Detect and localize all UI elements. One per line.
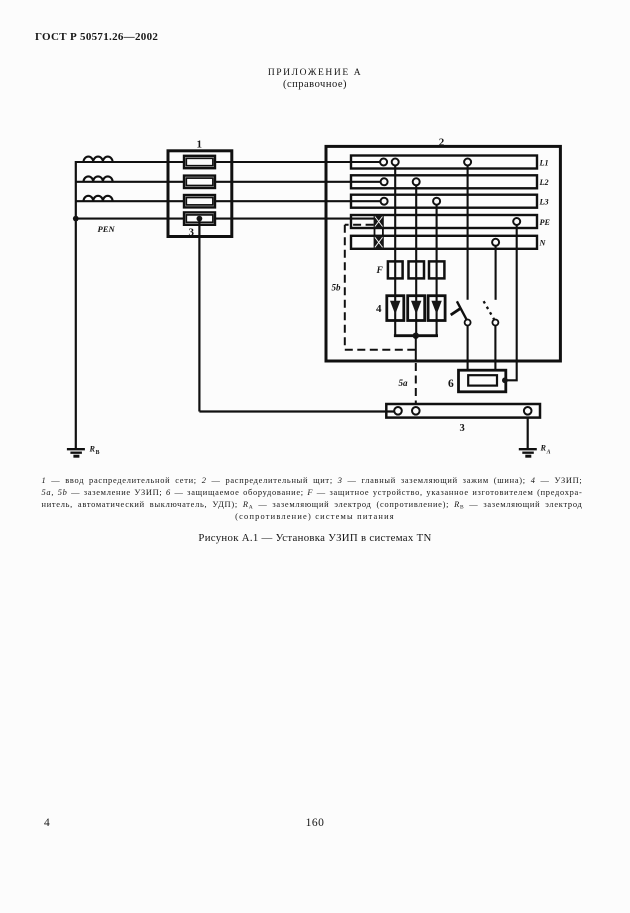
- svg-text:1: 1: [197, 139, 203, 151]
- node PEN junction: [73, 216, 79, 222]
- busbar L1: [351, 156, 537, 169]
- fuse in line L3: [184, 195, 215, 207]
- svg-text:F: F: [376, 266, 384, 276]
- busbar N: [351, 236, 537, 249]
- wire earthing conductor horizontal to earthing bar: [199, 410, 398, 412]
- terminal on L3 incoming: [381, 198, 388, 205]
- heading ПРИЛОЖЕНИЕ А: [0, 68, 630, 78]
- link PEN to PE busbar (crossed square): [374, 215, 384, 228]
- label RA: [540, 444, 551, 456]
- svg-text:L1: L1: [539, 158, 549, 167]
- node equipment PE junction: [502, 377, 508, 383]
- wire 5a dashed earthing conductor: [415, 363, 417, 403]
- svg-text:4: 4: [376, 303, 382, 315]
- wire L3 to SPD column 3: [436, 201, 438, 336]
- wire SPD common down to box edge: [415, 336, 417, 362]
- svg-text:R: R: [89, 445, 96, 454]
- node main earthing terminal on PEN: [197, 216, 203, 222]
- wire 5b dashed SPD earthing conductor: [345, 225, 416, 350]
- ground electrode RB symbol: [67, 449, 85, 456]
- svg-text:2: 2: [439, 137, 445, 149]
- terminal on L2 to SPD: [413, 178, 420, 185]
- wire L1 to SPD column 1: [394, 162, 396, 336]
- caption legend: [42, 476, 583, 485]
- SPD U3 (arrester): [428, 296, 445, 321]
- busbar L2: [351, 175, 537, 188]
- wire L2 to SPD column 2: [415, 182, 417, 336]
- transformer winding L1: [84, 157, 113, 162]
- terminal on L3 to SPD: [433, 198, 440, 205]
- ground electrode RA symbol: [519, 449, 537, 456]
- fuse F3: [429, 261, 444, 278]
- svg-text:PEN: PEN: [98, 224, 116, 234]
- label RB: [89, 445, 100, 457]
- terminal on PE to equipment: [513, 218, 520, 225]
- wire L2 phase from source to busbar: [76, 181, 384, 183]
- svg-text:R: R: [540, 444, 547, 453]
- fuse in PEN line: [184, 212, 215, 224]
- terminal on N to load: [492, 239, 499, 246]
- box 2 distribution board: [326, 146, 560, 361]
- terminal on L2 incoming: [381, 178, 388, 185]
- link PE to N busbar (crossed square): [374, 236, 384, 249]
- SPD U1 (arrester): [387, 296, 404, 321]
- heading (справочное): [0, 79, 630, 90]
- terminal on L1 incoming: [380, 159, 387, 166]
- figure caption: [0, 532, 630, 544]
- box 1 service entrance: [168, 151, 232, 237]
- svg-text:A: A: [546, 450, 551, 456]
- wire link between PE and N squares: [375, 228, 383, 236]
- wire N to load dashed switch: [495, 242, 497, 299]
- switch F load disconnector: [451, 301, 471, 370]
- svg-text:5a: 5a: [399, 378, 409, 388]
- svg-text:L2: L2: [539, 178, 549, 187]
- header: ГОСТ Р 50571.26—2002: [35, 31, 158, 43]
- terminal on L1 to load: [464, 159, 471, 166]
- transformer winding L2: [84, 176, 113, 181]
- busbar PE: [351, 215, 537, 228]
- svg-text:L3: L3: [539, 198, 549, 207]
- svg-text:3: 3: [460, 423, 465, 434]
- wire PE to equipment: [506, 222, 517, 381]
- terminal on L1 to SPD: [392, 159, 399, 166]
- svg-text:N: N: [539, 239, 547, 248]
- fuse F2: [409, 261, 425, 278]
- footer page number center: [0, 817, 630, 829]
- fuse in line L1: [184, 156, 215, 168]
- wire: source neutral/earth vertical conductor: [75, 161, 77, 448]
- svg-text:B: B: [96, 450, 100, 456]
- switch dashed (neutral path): [484, 301, 499, 370]
- svg-text:PE: PE: [540, 218, 551, 227]
- node SPD common junction: [413, 333, 419, 339]
- wire L1 to load switch: [467, 162, 469, 300]
- fuse F1: [388, 261, 403, 278]
- wire SPD common bar: [394, 334, 438, 337]
- footer page number left: [44, 817, 50, 829]
- fuse in line L2: [184, 176, 215, 188]
- wire L1 phase from source to busbar: [76, 161, 384, 163]
- SPD U2 (arrester): [408, 296, 425, 321]
- svg-text:6: 6: [448, 378, 454, 390]
- wire earthing conductor down from terminal 3: [198, 219, 200, 412]
- svg-text:5b: 5b: [332, 283, 342, 293]
- wire L3 phase from source to busbar: [76, 200, 384, 202]
- terminal on earthing bar left: [394, 407, 402, 415]
- wire PEN conductor: [76, 218, 375, 220]
- earthing bar 3: [386, 404, 540, 418]
- terminal on earthing bar right: [524, 407, 532, 415]
- box 6 protected equipment: [459, 370, 506, 392]
- wire to earth electrode RA: [527, 418, 529, 449]
- terminal on earthing bar middle: [412, 407, 420, 415]
- transformer winding L3: [84, 196, 113, 201]
- svg-text:3: 3: [189, 227, 195, 239]
- busbar L3: [351, 195, 537, 208]
